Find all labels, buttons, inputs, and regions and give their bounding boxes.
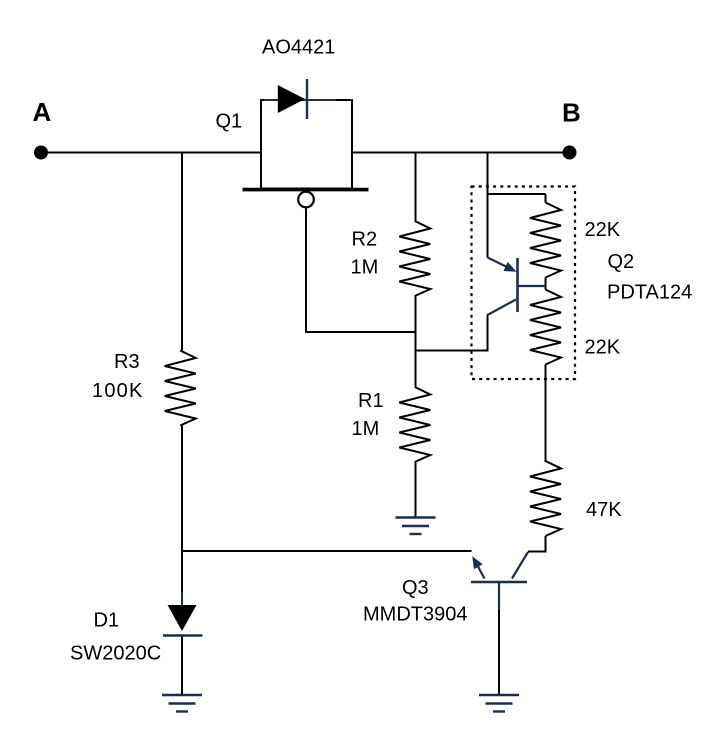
svg-text:PDTA124: PDTA124 — [607, 282, 692, 304]
svg-text:100K: 100K — [92, 380, 144, 402]
svg-text:47K: 47K — [586, 499, 622, 521]
svg-text:Q3: Q3 — [402, 577, 429, 599]
svg-text:R3: R3 — [114, 351, 140, 373]
svg-text:22K: 22K — [585, 337, 621, 359]
svg-text:Q1: Q1 — [216, 111, 243, 133]
svg-text:Q2: Q2 — [608, 251, 635, 273]
svg-text:22K: 22K — [585, 219, 621, 241]
svg-text:R2: R2 — [352, 229, 378, 251]
svg-text:1M: 1M — [352, 418, 380, 440]
svg-text:B: B — [562, 98, 581, 128]
svg-text:SW2020C: SW2020C — [70, 643, 161, 665]
svg-text:A: A — [33, 97, 52, 127]
svg-text:1M: 1M — [351, 257, 379, 279]
svg-text:D1: D1 — [94, 610, 120, 632]
svg-text:R1: R1 — [358, 390, 384, 412]
svg-text:MMDT3904: MMDT3904 — [363, 604, 467, 626]
svg-text:AO4421: AO4421 — [262, 37, 335, 59]
